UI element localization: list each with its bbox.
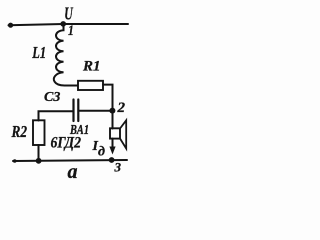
wire top bus xyxy=(9,24,129,25)
node 2 junction dot xyxy=(109,108,115,114)
wire bottom bus xyxy=(13,160,127,161)
wire R2 bottom xyxy=(38,145,40,161)
loudspeaker BA1 xyxy=(110,128,120,138)
wire C3 right to node 2 xyxy=(80,110,113,112)
svg-text:2: 2 xyxy=(117,100,126,116)
svg-text:R2: R2 xyxy=(11,122,28,141)
resistor R1 xyxy=(78,81,103,90)
capacitor C3 xyxy=(72,100,74,122)
node 3 junction dot xyxy=(109,157,115,163)
svg-text:L1: L1 xyxy=(32,43,47,62)
svg-text:C3: C3 xyxy=(44,90,60,105)
svg-text:U: U xyxy=(64,4,73,24)
svg-text:R1: R1 xyxy=(82,59,101,75)
arrowhead Iд xyxy=(109,147,115,155)
wire R1 to node 2 xyxy=(103,85,113,111)
svg-text:6ГД2: 6ГД2 xyxy=(51,135,82,152)
terminal dot bottom-left xyxy=(13,159,17,163)
terminal dot top-left xyxy=(8,23,13,28)
node 1 junction dot xyxy=(60,21,66,27)
svg-text:1: 1 xyxy=(68,23,74,39)
inductor L1 xyxy=(54,25,78,86)
wire speaker to node 3 (current Iд arrow shaft) xyxy=(112,139,114,151)
junction dot R2 / bottom bus xyxy=(36,158,42,164)
resistor R2 xyxy=(33,120,45,145)
wire node 2 to speaker xyxy=(112,111,114,129)
svg-text:3: 3 xyxy=(114,160,122,175)
svg-text:а: а xyxy=(68,161,78,183)
wire C3 left / R2 top xyxy=(39,111,73,120)
